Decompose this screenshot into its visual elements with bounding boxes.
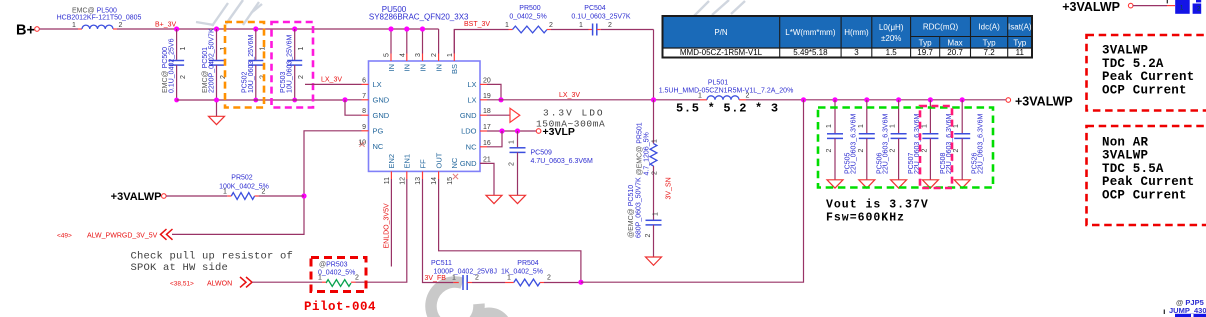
capacitor PC508 [928,97,933,102]
pin 6 LX PU500 [362,83,369,85]
svg-text:3VALWP: 3VALWP [1102,149,1148,163]
capacitor PC511 [453,282,459,284]
svg-text:5.5 * 5.2 * 3: 5.5 * 5.2 * 3 [676,102,779,116]
annotation box 3VALWP TDC 5.2A [1087,35,1206,111]
capacitor PC505 [832,97,837,102]
svg-text:2: 2 [549,22,553,29]
svg-text:19.7: 19.7 [917,48,933,57]
svg-text:21: 21 [483,156,491,163]
svg-text:2: 2 [826,149,833,153]
capacitor PC510 [646,219,662,221]
capacitor PC526 [960,97,965,102]
svg-text:1000P_0402_25V8J: 1000P_0402_25V8J [434,268,497,275]
pin 3 IN PU500 [422,29,424,54]
highlight box pink PC508 [920,106,952,188]
svg-text:1: 1 [223,188,227,195]
wire LDO net [487,130,536,132]
svg-text:Fsw=600KHz: Fsw=600KHz [826,212,905,225]
svg-text:NC: NC [373,142,384,151]
highlight box magenta PC503 [272,22,314,108]
ground PC526 [954,180,970,188]
svg-text:680P_0603_50V7K: 680P_0603_50V7K [636,177,643,238]
highlight box green output caps [818,108,993,188]
svg-text:0_0402_5%: 0_0402_5% [318,270,355,277]
ground input caps [216,100,218,116]
svg-text:7: 7 [362,93,366,100]
svg-text:4: 4 [399,53,406,57]
junction PG/PR502 [301,193,306,198]
wire ALWON to PR503 [252,281,322,283]
svg-text:@EMC@ PR501: @EMC@ PR501 [637,122,644,175]
svg-text:12: 12 [399,177,406,185]
svg-text:+3VALWP: +3VALWP [1062,0,1120,14]
resistor PR502 100K [231,193,254,200]
svg-text:22U_0603_6.3V6M: 22U_0603_6.3V6M [851,114,858,174]
svg-text:14: 14 [431,177,438,185]
svg-text:0.1U_0603_25V7K: 0.1U_0603_25V7K [571,13,630,20]
pin 5 IN PU500 [390,29,392,54]
node +3VALWP output terminal [1006,98,1011,103]
annotation box Non AR 3VALWP TDC 5.5A [1087,126,1206,225]
svg-text:2: 2 [858,149,865,153]
svg-text:@PR503: @PR503 [319,262,348,269]
pin 9 PG PU500 [362,130,369,132]
svg-text:SPOK at HW side: SPOK at HW side [131,262,229,274]
svg-text:IN: IN [434,64,443,72]
ground PC508 [922,180,938,188]
svg-text:B+_3V: B+_3V [155,22,177,29]
svg-text:RDC(mΩ): RDC(mΩ) [923,23,959,32]
svg-text:IN: IN [387,64,396,72]
pin 8 GND PU500 [362,114,369,116]
svg-text:1.5: 1.5 [886,48,898,57]
svg-text:PR504: PR504 [517,260,539,267]
svg-text:3VALWP: 3VALWP [1102,44,1148,58]
svg-text:<38,51>: <38,51> [170,280,194,287]
svg-text:LX_3V: LX_3V [321,77,342,84]
svg-text:Typ: Typ [919,39,932,48]
svg-text:JUMP_430: JUMP_430 [1169,306,1206,315]
svg-text:SY8286BRAC_QFN20_3X3: SY8286BRAC_QFN20_3X3 [369,13,469,22]
svg-text:P/N: P/N [714,28,728,37]
ground pin21 [486,195,502,203]
pin 15 NC PU500 [453,174,458,179]
svg-text:1: 1 [318,274,322,281]
svg-text:Idc(A): Idc(A) [978,23,1000,32]
pin 12 EN1 PU500 [406,171,408,179]
svg-text:Typ: Typ [983,39,996,48]
svg-text:1.5UH_MMD-05CZN1R5M-V1L_7.2A_2: 1.5UH_MMD-05CZN1R5M-V1L_7.2A_20% [659,88,794,95]
svg-text:2: 2 [119,22,123,29]
pin 21 GND PU500 [480,162,487,164]
svg-text:OCP Current: OCP Current [1102,83,1187,97]
svg-text:5.49*5.18: 5.49*5.18 [793,48,828,57]
pin 4 IN PU500 [406,29,408,54]
svg-text:EMC@ PL500: EMC@ PL500 [72,8,117,15]
svg-text:HCB2012KF-121T50_0805: HCB2012KF-121T50_0805 [57,15,142,22]
wire BST down to LX [653,30,655,101]
pin 16 NC PU500 [480,146,487,148]
svg-text:<49>: <49> [57,232,72,239]
svg-text:10U_0603_25V6M: 10U_0603_25V6M [287,34,294,93]
svg-text:1: 1 [652,139,659,143]
svg-text:H(mm): H(mm) [844,28,869,37]
svg-text:GND: GND [373,96,390,105]
svg-text:OCP Current: OCP Current [1102,189,1187,203]
svg-text:1: 1 [579,22,583,29]
pin 19 LX PU500 [480,99,487,101]
svg-text:13: 13 [415,177,422,185]
capacitor PC504 [589,29,593,31]
svg-text:3V_FB: 3V_FB [425,275,447,282]
wire input gnd rail [177,99,345,101]
off-page connector ALWON [240,277,252,287]
svg-text:4.7U_0603_6.3V6M: 4.7U_0603_6.3V6M [531,158,593,165]
svg-text:2: 2 [180,75,187,79]
svg-text:1: 1 [826,124,833,128]
svg-text:Isat(A): Isat(A) [1008,23,1032,32]
svg-text:2: 2 [509,162,516,166]
junction feedback tap [801,97,806,102]
svg-text:PR500: PR500 [519,5,541,12]
svg-text:EN1: EN1 [403,154,412,169]
pin 2 IN PU500 [438,29,440,54]
svg-text:Peak Current: Peak Current [1102,70,1194,84]
svg-text:Vout is 3.37V: Vout is 3.37V [826,199,929,212]
junction pin 3 [420,26,425,31]
svg-text:ALW_PWRGD_3V_5V: ALW_PWRGD_3V_5V [87,232,158,239]
svg-text:BS: BS [450,64,459,74]
svg-text:1: 1 [180,47,187,51]
op-amp U1 PU500 SY8286BRAC body [369,61,481,171]
svg-text:2: 2 [645,234,652,238]
svg-text:GND: GND [460,111,477,120]
svg-text:2: 2 [262,188,266,195]
pin 18 GND PU500 [480,114,487,116]
svg-text:1: 1 [298,47,305,51]
svg-text:TDC 5.2A: TDC 5.2A [1102,57,1164,71]
wire pin7 gnd [345,99,362,101]
svg-text:1: 1 [653,212,660,216]
svg-text:2: 2 [547,274,551,281]
svg-text:LX: LX [373,80,382,89]
resistor PR501 4.7ohm [653,100,655,144]
svg-text:Peak Current: Peak Current [1102,175,1194,189]
svg-text:16: 16 [483,140,491,147]
svg-text:18: 18 [483,108,491,115]
svg-text:7.2: 7.2 [984,48,996,57]
svg-text:EN2: EN2 [387,154,396,169]
svg-text:PC509: PC509 [531,150,553,157]
svg-text:FF: FF [418,159,427,169]
resistor PR500 0ohm [513,26,548,33]
svg-text:1: 1 [447,53,454,57]
svg-text:1: 1 [72,22,76,29]
svg-text:1: 1 [890,124,897,128]
wire to jumper PJP [1133,5,1167,7]
pin 10 NC PU500 [359,142,364,147]
svg-text:NC: NC [466,143,477,152]
wire OUT net pin14 [439,179,581,282]
svg-text:±20%: ±20% [881,34,901,43]
svg-text:MMD-05CZ-1R5M-V1L: MMD-05CZ-1R5M-V1L [680,48,763,57]
svg-text:3: 3 [854,48,859,57]
svg-text:TDC 5.5A: TDC 5.5A [1102,162,1164,176]
highlight box orange PC502 [225,22,264,108]
svg-text:11: 11 [1016,48,1025,57]
ground PC510 [646,257,662,265]
svg-text:20: 20 [483,77,491,84]
svg-text:2: 2 [746,92,750,99]
svg-text:1: 1 [259,47,266,51]
capacitor PC509 [517,131,519,148]
junction feedback node [578,280,583,285]
capacitor PC507 [896,97,901,102]
pin18 gnd arrow [487,114,510,116]
svg-text:0.1U_0402_25V6: 0.1U_0402_25V6 [169,38,176,93]
svg-text:OUT: OUT [434,152,443,168]
wire pin20 to LX [487,84,501,99]
resistor PR503 0ohm [326,280,351,287]
svg-text:9: 9 [362,124,366,131]
svg-text:ENLDO_3V5V: ENLDO_3V5V [384,203,391,248]
svg-text:PL501: PL501 [708,80,728,87]
pin 13 FF PU500 [422,171,424,179]
off-page connector ALW_PWRGD_3V_5V [161,229,173,240]
svg-text:LX: LX [467,80,476,89]
svg-text:1: 1 [921,124,928,128]
ground PC505 [827,180,843,188]
svg-text:BST_3V: BST_3V [464,21,490,28]
svg-text:@EMC@ PC510: @EMC@ PC510 [628,185,635,238]
svg-text:1: 1 [953,124,960,128]
wire +3VALWP to PR502 [166,195,227,197]
svg-text:2: 2 [890,149,897,153]
svg-text:0_0402_5%: 0_0402_5% [509,13,546,20]
svg-text:PG: PG [373,127,384,136]
wire pin8 riser [345,100,362,115]
table inductor specs [663,16,1033,58]
wire PG net pin9 [172,131,362,235]
svg-text:3V_SN: 3V_SN [666,177,673,199]
capacitor PC506 [864,97,869,102]
wire pin16 riser [487,131,502,147]
svg-text:1: 1 [452,274,456,281]
svg-text:10U_0603_25V6M: 10U_0603_25V6M [248,34,255,93]
svg-text:4.7_1206_5%: 4.7_1206_5% [644,132,651,175]
svg-text:Typ: Typ [1013,39,1026,48]
wire net B+_3V rail [117,28,439,30]
wire feedback to output [581,100,804,282]
svg-text:3.3V LDO: 3.3V LDO [543,108,605,119]
wire +3VALWP output rail [746,99,1006,101]
svg-text:2: 2 [431,53,438,57]
svg-text:1: 1 [858,124,865,128]
svg-text:2: 2 [921,149,928,153]
pin 14 OUT PU500 [438,171,440,179]
svg-text:1: 1 [507,274,511,281]
svg-text:ALWON: ALWON [207,280,232,287]
svg-text:LX_3V: LX_3V [559,92,580,99]
svg-text:2: 2 [475,274,479,281]
svg-text:19: 19 [483,93,491,100]
svg-text:10: 10 [358,139,366,146]
wire LX_3V stub pin6 [305,83,362,85]
svg-text:2: 2 [355,274,359,281]
svg-text:2: 2 [652,171,659,175]
svg-text:GND: GND [373,111,390,120]
wire EN2 stub ENLDO_3V5V [390,179,392,267]
svg-text:17: 17 [483,124,491,131]
svg-text:11: 11 [384,177,391,184]
ground PC509 [510,195,526,203]
ground PC506 [859,180,875,188]
capacitor PC501 [214,26,219,31]
highlight box red PR503 [311,258,366,292]
svg-text:1: 1 [698,92,702,99]
svg-text:NC: NC [450,157,459,168]
svg-text:IN: IN [403,64,412,72]
capacitor PC502 [253,26,258,31]
svg-text:6: 6 [362,77,366,84]
svg-text:20.7: 20.7 [947,48,963,57]
pin 7 GND PU500 [362,99,369,101]
svg-text:5: 5 [384,53,391,57]
svg-text:Check pull up resistor of: Check pull up resistor of [131,251,294,263]
wire B+ to PL500 [39,28,78,30]
svg-text:+3VALWP: +3VALWP [111,191,162,203]
junction pin 5 [388,26,393,31]
wire pin21 gnd [480,163,494,195]
svg-text:8: 8 [362,108,366,115]
svg-text:+3VLP: +3VLP [543,126,575,138]
jumper PJP top right [1175,0,1190,14]
capacitor PC503 [292,26,297,31]
svg-text:22U_0603_6.3V6M: 22U_0603_6.3V6M [978,114,985,174]
svg-text:1: 1 [505,22,509,29]
svg-text:LDO: LDO [461,127,477,136]
svg-text:2: 2 [298,75,305,79]
svg-text:+3VALWP: +3VALWP [1015,94,1073,108]
wire FF net pin13 [423,179,454,283]
svg-text:PR502: PR502 [231,175,253,182]
svg-text:15: 15 [447,177,454,185]
junction pin 4 [404,26,409,31]
svg-text:2200P_0402_50V7K: 2200P_0402_50V7K [209,28,216,93]
svg-text:B+: B+ [16,23,35,39]
svg-text:L*W(mm*mm): L*W(mm*mm) [785,28,836,37]
svg-text:Non AR: Non AR [1102,135,1149,149]
pin 11 EN2 PU500 [390,171,392,179]
resistor PR504 1K [505,282,514,284]
svg-text:PC504: PC504 [584,5,606,12]
wire EN1 to ALWON [356,179,407,282]
inductor PL501 [700,99,707,101]
svg-text:GND: GND [460,159,477,168]
pin 17 LDO PU500 [480,130,487,132]
svg-text:3: 3 [415,53,422,57]
svg-text:Pilot-004: Pilot-004 [304,300,376,314]
svg-text:IN: IN [418,64,427,72]
inductor PL500 [82,25,113,29]
node +3VLP terminal [536,129,541,134]
svg-text:2: 2 [953,149,960,153]
wire BST_3V [454,30,508,54]
ground PC507 [891,180,907,188]
svg-text:PC511: PC511 [431,260,452,267]
wire LX_3V main [487,99,700,101]
svg-text:1: 1 [509,140,516,144]
svg-text:2: 2 [608,22,612,29]
capacitor PC500 [174,26,179,31]
svg-text:Max: Max [948,39,963,48]
svg-text:LX: LX [467,96,476,105]
pin 20 LX PU500 [480,83,487,85]
svg-text:L0(μH): L0(μH) [879,23,904,32]
svg-text:22U_0603_6.3V6M: 22U_0603_6.3V6M [882,114,889,174]
pin 1 BS PU500 [453,30,455,54]
